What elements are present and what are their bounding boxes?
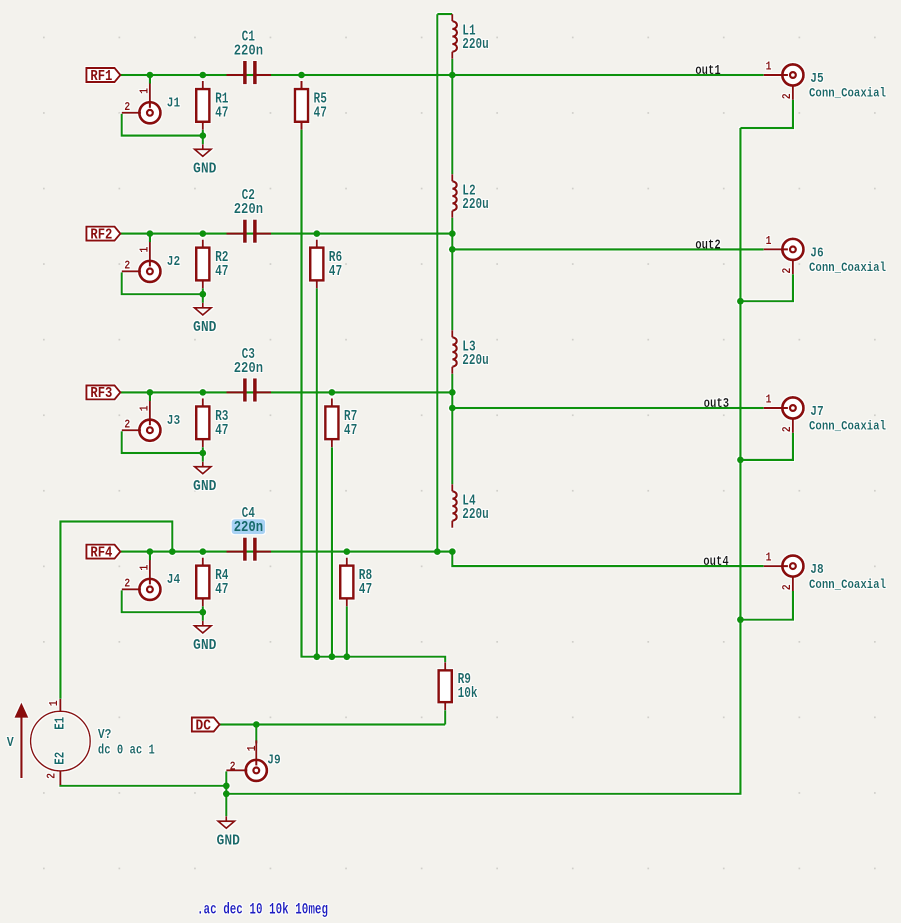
ground GND at J9: [218, 816, 234, 828]
junction: [199, 389, 206, 396]
connector J4 (Conn_Coaxial input): [122, 552, 203, 613]
svg-text:GND: GND: [193, 638, 217, 654]
wire J3 pin2 to R3 bottom: [122, 431, 203, 453]
junction: [169, 548, 176, 555]
wire stub J2 pin1: [149, 234, 151, 243]
junction: [434, 548, 441, 555]
connector J7 (Conn_Coaxial output): [764, 394, 886, 434]
wire L2 bottom to L3 top: [451, 218, 453, 330]
wire J1 pin2 to R1 bottom: [122, 114, 203, 136]
resistor R1 47: [196, 81, 229, 130]
resistor R8 47: [340, 558, 372, 607]
resistor R4 47: [196, 558, 229, 607]
wire bias bus R5 to R9: [302, 130, 446, 663]
svg-text:2: 2: [45, 773, 58, 779]
svg-text:1: 1: [138, 565, 151, 571]
wire stub J3 pin1: [149, 392, 151, 401]
voltage source E1/E2 V?: [7, 699, 155, 785]
connector J5 (Conn_Coaxial output): [764, 61, 886, 101]
wire E source return: [60, 785, 226, 786]
svg-text:220u: 220u: [462, 197, 489, 213]
wire DC to J9 pin1: [255, 725, 257, 744]
junction: [449, 548, 456, 555]
svg-text:RF2: RF2: [90, 226, 112, 243]
polarity arrow of V source: [14, 703, 28, 779]
wire E source to RF4 node: [60, 522, 172, 699]
global label RF3: [86, 385, 120, 402]
resistor R5 47: [295, 81, 327, 130]
svg-text:1: 1: [138, 88, 151, 94]
junction: [253, 721, 260, 728]
wire J4 pin2 to R4 bottom: [122, 590, 203, 612]
svg-text:1: 1: [766, 235, 772, 248]
junction: [199, 548, 206, 555]
junction: [737, 298, 744, 305]
junction: [449, 246, 456, 253]
junction: [737, 457, 744, 464]
svg-text:GND: GND: [193, 161, 217, 177]
svg-text:Conn_Coaxial: Conn_Coaxial: [809, 577, 886, 592]
junction: [199, 230, 206, 237]
global label RF2: [86, 226, 120, 243]
wire R5 bottom to bias bus: [300, 130, 302, 657]
svg-text:E1: E1: [54, 717, 69, 730]
selection highlight on value 220n of C4: [232, 519, 265, 534]
svg-text:47: 47: [359, 582, 372, 598]
wire J2 pin2 to R2 bottom: [122, 272, 203, 294]
svg-text:1: 1: [246, 745, 259, 751]
svg-text:V?: V?: [98, 727, 112, 743]
svg-text:V: V: [7, 735, 14, 751]
inductor L4 220u: [452, 484, 489, 528]
junction: [199, 291, 206, 298]
svg-text:220n: 220n: [234, 202, 263, 218]
junction: [147, 389, 154, 396]
connector J3 (Conn_Coaxial input): [122, 392, 203, 453]
wire net RF1/out1: [121, 74, 764, 76]
svg-text:RF1: RF1: [90, 68, 112, 85]
svg-text:J5: J5: [810, 71, 823, 87]
inductor L1 220u: [452, 14, 489, 59]
svg-text:10k: 10k: [458, 686, 478, 702]
wire J9 pin2 down: [225, 771, 227, 816]
wire feedback vertical: [436, 14, 438, 552]
svg-text:2: 2: [781, 584, 794, 590]
wire R9 bottom to DC net: [444, 710, 446, 724]
svg-text:J8: J8: [810, 562, 823, 578]
wire R8 bottom to bias bus: [346, 606, 348, 656]
svg-text:GND: GND: [193, 320, 217, 336]
connector J8 (Conn_Coaxial output): [764, 552, 886, 592]
svg-text:2: 2: [124, 101, 130, 114]
svg-text:.ac dec 10 10k 10meg: .ac dec 10 10k 10meg: [197, 900, 328, 918]
wire R2 bottom to ground: [202, 288, 204, 303]
ground GND row 4: [195, 621, 211, 633]
svg-text:2: 2: [781, 93, 794, 99]
junction: [343, 548, 350, 555]
svg-text:2: 2: [781, 268, 794, 274]
wire net out4: [452, 552, 763, 567]
resistor R6 47: [310, 240, 342, 289]
svg-text:J7: J7: [810, 404, 823, 420]
svg-text:47: 47: [215, 423, 228, 439]
capacitor C1 220n: [227, 30, 272, 85]
inductor L3 220u: [452, 330, 489, 374]
connector J6 (Conn_Coaxial output): [764, 235, 886, 275]
svg-text:2: 2: [124, 578, 130, 591]
svg-text:Conn_Coaxial: Conn_Coaxial: [809, 260, 886, 275]
svg-text:GND: GND: [193, 479, 217, 495]
svg-text:J6: J6: [810, 245, 823, 261]
connector J2 (Conn_Coaxial input): [122, 234, 203, 295]
wire net RF3: [121, 391, 453, 393]
svg-text:J2: J2: [167, 254, 180, 270]
svg-text:47: 47: [215, 264, 228, 280]
junction: [313, 230, 320, 237]
junction: [199, 450, 206, 457]
wire R3 bottom to ground: [202, 447, 204, 462]
svg-text:J1: J1: [167, 95, 180, 111]
svg-text:220u: 220u: [462, 353, 489, 369]
svg-text:E2: E2: [54, 752, 69, 765]
wire net out3: [452, 407, 763, 409]
svg-text:1: 1: [766, 61, 772, 74]
junction: [449, 405, 456, 412]
connector J9 (Conn_Coaxial DC input): [226, 740, 280, 781]
svg-text:DC: DC: [196, 717, 211, 734]
wire R6 bottom to bias bus: [316, 288, 318, 656]
junction: [329, 653, 336, 660]
wire stub J4 pin1: [149, 552, 151, 561]
wire J6 pin2 return: [740, 274, 793, 301]
connector J1 (Conn_Coaxial input): [122, 75, 203, 136]
ground GND row 3: [195, 462, 211, 474]
junction: [147, 230, 154, 237]
wire J7 pin2 return: [740, 433, 793, 460]
svg-text:1: 1: [766, 394, 772, 407]
junction: [147, 72, 154, 79]
svg-text:2: 2: [124, 419, 130, 432]
wire net out2: [452, 248, 763, 250]
svg-text:J9: J9: [267, 752, 280, 768]
svg-text:47: 47: [215, 106, 228, 122]
svg-text:out2: out2: [695, 238, 721, 254]
junction: [343, 653, 350, 660]
svg-text:RF3: RF3: [90, 385, 112, 402]
junction: [223, 782, 230, 789]
svg-text:dc 0 ac 1: dc 0 ac 1: [98, 742, 155, 758]
wire R4 bottom to ground: [202, 606, 204, 621]
resistor R2 47: [196, 240, 228, 289]
wire L1 bottom to L2 top: [451, 59, 453, 174]
junction: [199, 132, 206, 139]
svg-text:47: 47: [314, 106, 327, 122]
junction: [199, 609, 206, 616]
wire net RF4: [121, 550, 453, 552]
svg-text:Conn_Coaxial: Conn_Coaxial: [809, 86, 886, 101]
wire R1 bottom to ground: [202, 130, 204, 145]
wire net RF2: [121, 233, 453, 235]
svg-text:220u: 220u: [462, 37, 489, 53]
svg-text:220u: 220u: [462, 507, 489, 523]
svg-text:220n: 220n: [234, 361, 263, 377]
junction: [449, 72, 456, 79]
junction: [223, 790, 230, 797]
svg-text:2: 2: [124, 260, 130, 273]
junction: [298, 72, 305, 79]
svg-text:out1: out1: [695, 63, 721, 79]
resistor R7 47: [325, 398, 357, 447]
svg-text:47: 47: [344, 423, 357, 439]
svg-text:J3: J3: [167, 413, 180, 429]
wire J5 pin2 return: [740, 100, 793, 128]
wire L1 top jog: [437, 13, 452, 15]
svg-text:1: 1: [138, 405, 151, 411]
global label DC: [192, 717, 220, 734]
junction: [199, 72, 206, 79]
junction: [329, 389, 336, 396]
svg-text:Conn_Coaxial: Conn_Coaxial: [809, 419, 886, 434]
junction: [147, 548, 154, 555]
wire L3 bottom to L4 top: [451, 374, 453, 484]
svg-text:220n: 220n: [234, 520, 263, 536]
svg-text:J4: J4: [167, 572, 181, 588]
capacitor C4 220n: [227, 506, 272, 561]
wire right return bus: [226, 128, 740, 794]
junction: [737, 616, 744, 623]
wire J8 pin2 return: [740, 591, 793, 620]
wire stub J1 pin1: [149, 75, 151, 84]
svg-text:out4: out4: [703, 554, 729, 570]
inductor L2 220u: [452, 174, 489, 218]
global label RF4: [86, 544, 120, 561]
capacitor C3 220n: [227, 347, 272, 402]
wire net DC: [219, 723, 445, 725]
svg-text:2: 2: [230, 760, 236, 773]
svg-text:GND: GND: [217, 833, 241, 849]
resistor R3 47: [196, 398, 228, 447]
global label RF1: [86, 68, 120, 85]
resistor R9 10k: [439, 662, 478, 710]
junction: [449, 230, 456, 237]
svg-text:47: 47: [215, 582, 228, 598]
svg-text:1: 1: [48, 700, 61, 706]
ground GND row 2: [195, 303, 211, 315]
junction: [449, 389, 456, 396]
ground GND row 1: [195, 144, 211, 156]
capacitor C2 220n: [227, 188, 272, 243]
svg-text:out3: out3: [704, 396, 730, 412]
svg-text:1: 1: [138, 247, 151, 253]
svg-text:2: 2: [781, 426, 794, 432]
svg-text:220n: 220n: [234, 44, 263, 60]
wire R7 bottom to bias bus: [331, 447, 333, 657]
svg-text:1: 1: [766, 552, 772, 565]
svg-text:47: 47: [329, 264, 342, 280]
svg-text:RF4: RF4: [90, 544, 112, 561]
junction: [313, 653, 320, 660]
